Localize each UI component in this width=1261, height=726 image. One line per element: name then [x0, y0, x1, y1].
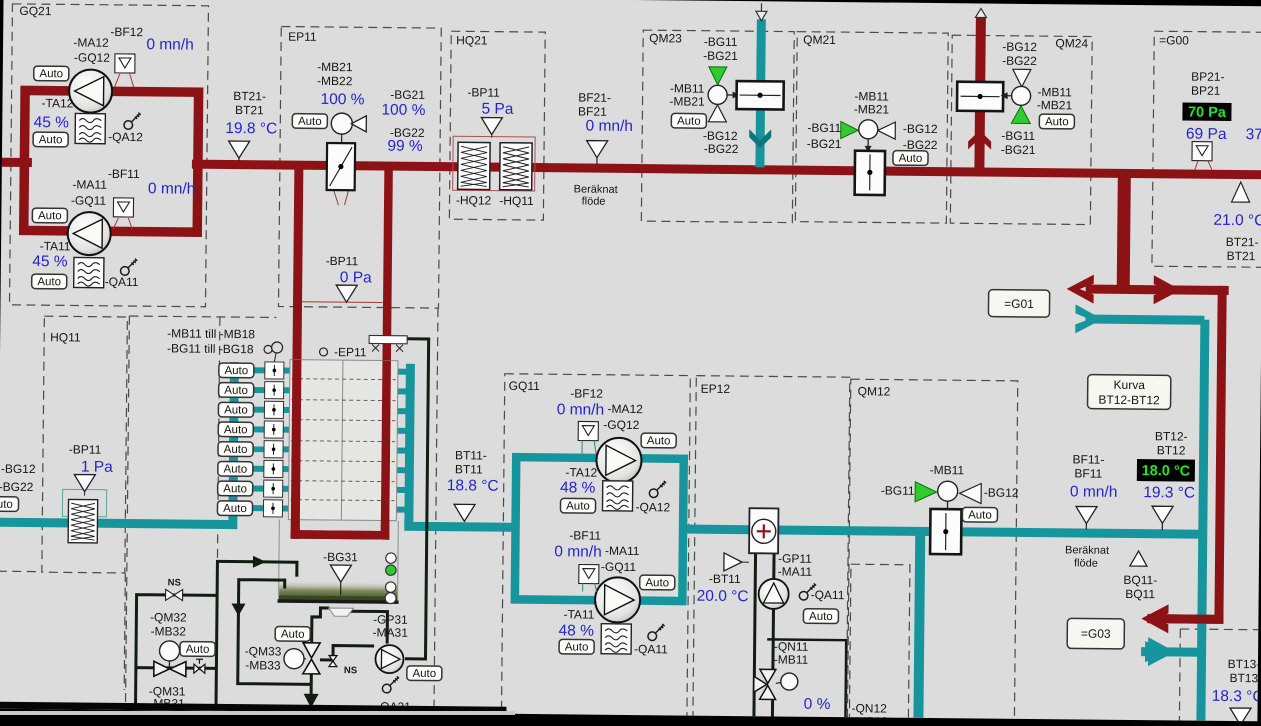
- svg-text:BT21-: BT21-: [233, 89, 266, 103]
- svg-text:-QA11: -QA11: [634, 642, 668, 656]
- svg-text:EP11: EP11: [288, 30, 317, 44]
- svg-text:BF21-: BF21-: [578, 90, 611, 104]
- svg-text:20.0 °C: 20.0 °C: [697, 588, 749, 606]
- svg-text:BT21-: BT21-: [1226, 235, 1259, 249]
- svg-text:18.8 °C: 18.8 °C: [447, 477, 499, 495]
- svg-text:Beräknat: Beräknat: [574, 183, 618, 195]
- svg-text:-BP11: -BP11: [69, 442, 102, 456]
- svg-text:-MB21: -MB21: [317, 60, 353, 74]
- svg-text:99 %: 99 %: [387, 138, 423, 155]
- svg-text:45 %: 45 %: [32, 253, 68, 270]
- svg-text:-BG21: -BG21: [390, 88, 425, 102]
- svg-text:BF21: BF21: [578, 104, 607, 118]
- svg-text:-BG11: -BG11: [704, 35, 738, 49]
- svg-text:-BG22: -BG22: [1002, 54, 1037, 68]
- svg-text:=G00: =G00: [1159, 33, 1189, 47]
- svg-text:-BT11: -BT11: [709, 572, 741, 586]
- svg-text:-HQ11: -HQ11: [499, 194, 534, 208]
- svg-text:-BG31: -BG31: [323, 550, 358, 564]
- svg-text:-BF12: -BF12: [110, 25, 143, 39]
- svg-text:BT12-: BT12-: [1155, 429, 1188, 443]
- svg-text:-MA12: -MA12: [73, 35, 109, 49]
- svg-text:BP21: BP21: [1191, 84, 1221, 98]
- svg-text:19.8 °C: 19.8 °C: [225, 120, 277, 138]
- svg-text:0 mn/h: 0 mn/h: [148, 180, 196, 197]
- svg-text:21.0 °C: 21.0 °C: [1213, 212, 1261, 230]
- svg-text:QM24: QM24: [1055, 36, 1088, 50]
- svg-text:-TA12: -TA12: [565, 465, 597, 479]
- svg-text:-BG22: -BG22: [903, 138, 938, 152]
- svg-text:-BF11: -BF11: [108, 167, 140, 181]
- svg-text:-BG21: -BG21: [807, 137, 842, 151]
- svg-text:-BG21: -BG21: [1001, 143, 1036, 157]
- svg-text:-GQ12: -GQ12: [603, 418, 639, 432]
- svg-text:-QA11: -QA11: [105, 275, 139, 289]
- svg-text:-MB21: -MB21: [854, 102, 890, 116]
- svg-text:BP21-: BP21-: [1191, 70, 1224, 84]
- svg-text:BF11: BF11: [1074, 466, 1102, 480]
- svg-text:-MB11: -MB11: [930, 463, 965, 477]
- svg-text:QM23: QM23: [649, 31, 682, 45]
- svg-text:37: 37: [1246, 126, 1261, 143]
- svg-text:-MA31: -MA31: [373, 625, 409, 639]
- svg-text:BT21: BT21: [1227, 249, 1256, 263]
- svg-text:-MA11: -MA11: [778, 564, 813, 578]
- svg-text:BQ11: BQ11: [1125, 587, 1155, 601]
- svg-text:-TA12: -TA12: [42, 96, 74, 110]
- svg-text:BT21: BT21: [235, 103, 264, 117]
- svg-text:-MB11: -MB11: [774, 652, 809, 666]
- svg-text:-QM33: -QM33: [245, 644, 282, 658]
- svg-text:BQ11-: BQ11-: [1123, 573, 1157, 587]
- svg-text:-QA12: -QA12: [108, 130, 143, 144]
- svg-text:Beräknat: Beräknat: [1065, 544, 1109, 556]
- svg-text:-BG11: -BG11: [881, 484, 915, 498]
- svg-text:GQ21: GQ21: [19, 4, 51, 18]
- svg-text:100 %: 100 %: [381, 102, 425, 119]
- svg-text:-TA11: -TA11: [40, 239, 71, 253]
- svg-text:-MA12: -MA12: [607, 402, 643, 416]
- svg-text:BT11: BT11: [455, 462, 483, 476]
- svg-text:0 mn/h: 0 mn/h: [554, 543, 602, 560]
- svg-text:45 %: 45 %: [34, 114, 70, 131]
- svg-text:0 mn/h: 0 mn/h: [557, 401, 605, 418]
- svg-text:BF11-: BF11-: [1073, 452, 1105, 466]
- svg-text:19.3 °C: 19.3 °C: [1143, 484, 1195, 502]
- svg-text:-BG11 till -BG18: -BG11 till -BG18: [167, 341, 254, 356]
- svg-text:-BG12: -BG12: [984, 486, 1019, 500]
- svg-text:69 Pa: 69 Pa: [1186, 126, 1227, 143]
- svg-text:-GQ11: -GQ11: [71, 193, 107, 207]
- svg-text:-QM32: -QM32: [150, 610, 187, 624]
- svg-text:-BG12: -BG12: [903, 122, 938, 136]
- svg-text:18.0 °C: 18.0 °C: [1142, 463, 1191, 479]
- svg-text:-BF12: -BF12: [570, 386, 603, 400]
- svg-text:GQ11: GQ11: [509, 379, 541, 393]
- svg-text:48 %: 48 %: [560, 479, 596, 496]
- svg-text:BT12-BT12: BT12-BT12: [1098, 393, 1160, 408]
- svg-text:NS: NS: [344, 665, 357, 676]
- svg-text:-BG11: -BG11: [807, 121, 841, 135]
- svg-text:BT11-: BT11-: [455, 448, 487, 462]
- svg-text:HQ21: HQ21: [456, 33, 488, 47]
- svg-text:-MB21: -MB21: [1037, 98, 1073, 112]
- svg-text:BT12: BT12: [1157, 443, 1186, 457]
- svg-text:flöde: flöde: [1074, 557, 1098, 569]
- svg-text:-BG21: -BG21: [703, 49, 738, 63]
- svg-text:-GQ12: -GQ12: [74, 50, 110, 64]
- svg-text:-BG11: -BG11: [1001, 129, 1035, 143]
- svg-text:-BG22: -BG22: [704, 142, 739, 156]
- svg-text:BT13: BT13: [1229, 671, 1258, 685]
- svg-text:-BF11: -BF11: [569, 528, 601, 542]
- svg-text:0 Pa: 0 Pa: [340, 269, 372, 286]
- svg-text:0 mn/h: 0 mn/h: [146, 36, 194, 53]
- svg-text:-BG12: -BG12: [1, 462, 36, 476]
- svg-text:QM12: QM12: [858, 384, 891, 398]
- svg-text:-QA12: -QA12: [635, 500, 670, 514]
- svg-text:EP12: EP12: [701, 382, 731, 396]
- svg-text:NS: NS: [168, 577, 181, 588]
- svg-text:-HQ12: -HQ12: [456, 193, 492, 207]
- svg-text:70 Pa: 70 Pa: [1188, 105, 1227, 121]
- svg-text:-MB11 till -MB18: -MB11 till -MB18: [167, 326, 255, 341]
- svg-text:=G01: =G01: [1004, 297, 1034, 311]
- svg-text:48 %: 48 %: [559, 622, 595, 639]
- svg-text:-BG12: -BG12: [1002, 40, 1037, 54]
- svg-text:5 Pa: 5 Pa: [481, 101, 513, 118]
- svg-text:HQ11: HQ11: [50, 330, 81, 344]
- svg-text:0 mn/h: 0 mn/h: [1070, 483, 1118, 500]
- svg-text:0 mn/h: 0 mn/h: [586, 118, 634, 135]
- svg-text:-BP11: -BP11: [467, 85, 500, 99]
- svg-text:0 %: 0 %: [804, 696, 831, 713]
- svg-text:1 Pa: 1 Pa: [81, 459, 113, 476]
- svg-text:-GQ11: -GQ11: [601, 560, 637, 574]
- svg-text:-TA11: -TA11: [563, 607, 594, 621]
- svg-text:=G03: =G03: [1081, 626, 1111, 640]
- svg-text:BT13-: BT13-: [1228, 657, 1261, 671]
- svg-text:-QA11: -QA11: [811, 588, 845, 602]
- svg-text:-MB32: -MB32: [151, 624, 187, 638]
- svg-text:Kurva: Kurva: [1113, 378, 1145, 392]
- svg-text:-MB21: -MB21: [669, 94, 705, 108]
- svg-text:QM21: QM21: [803, 33, 836, 47]
- svg-text:-EP11: -EP11: [334, 345, 367, 359]
- svg-text:-MB22: -MB22: [317, 74, 353, 88]
- svg-text:18.3 °C: 18.3 °C: [1212, 688, 1261, 706]
- svg-text:-MA11: -MA11: [605, 544, 640, 558]
- svg-text:-BP11: -BP11: [326, 254, 359, 268]
- svg-text:-MB12: -MB12: [852, 714, 888, 721]
- svg-text:-MB33: -MB33: [245, 658, 281, 672]
- svg-text:-BG22: -BG22: [0, 480, 34, 494]
- svg-text:100 %: 100 %: [320, 91, 364, 108]
- svg-text:-MA11: -MA11: [72, 177, 107, 191]
- svg-text:flöde: flöde: [582, 196, 606, 208]
